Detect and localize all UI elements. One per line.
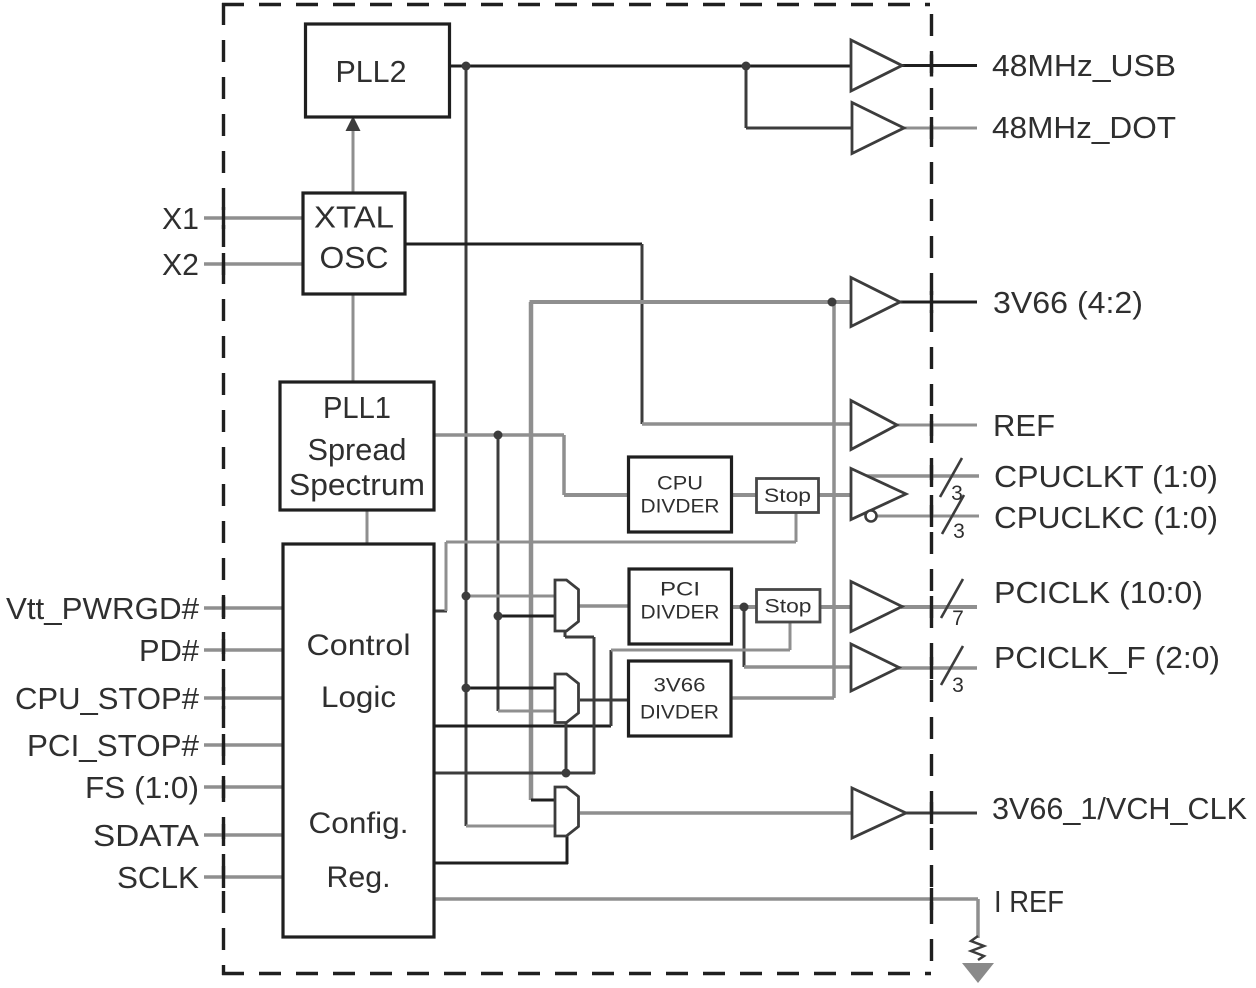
svg-text:SCLK: SCLK	[117, 860, 199, 895]
svg-text:DIVDER: DIVDER	[640, 703, 719, 724]
svg-text:3: 3	[952, 674, 964, 697]
svg-text:I REF: I REF	[994, 884, 1064, 919]
svg-text:48MHz_USB: 48MHz_USB	[992, 48, 1176, 83]
svg-text:REF: REF	[993, 408, 1055, 443]
svg-text:CPUCLKT (1:0): CPUCLKT (1:0)	[994, 459, 1218, 494]
svg-text:PCICLK_F (2:0): PCICLK_F (2:0)	[994, 640, 1220, 675]
svg-text:Stop: Stop	[765, 597, 812, 618]
svg-text:48MHz_DOT: 48MHz_DOT	[992, 110, 1176, 145]
svg-text:PLL1: PLL1	[323, 390, 391, 425]
svg-text:CPUCLKC (1:0): CPUCLKC (1:0)	[994, 500, 1218, 535]
svg-text:PCI_STOP#: PCI_STOP#	[27, 728, 200, 763]
svg-text:7: 7	[952, 607, 964, 630]
svg-text:3V66_1/VCH_CLK: 3V66_1/VCH_CLK	[992, 791, 1247, 826]
svg-text:PLL2: PLL2	[336, 54, 407, 89]
svg-text:Reg.: Reg.	[327, 861, 391, 894]
svg-text:DIVDER: DIVDER	[641, 497, 720, 518]
svg-text:CPU: CPU	[657, 474, 703, 495]
svg-text:Spectrum: Spectrum	[289, 467, 425, 502]
svg-text:FS (1:0): FS (1:0)	[85, 770, 199, 805]
svg-text:PCICLK (10:0): PCICLK (10:0)	[994, 575, 1203, 610]
svg-text:Config.: Config.	[309, 807, 409, 840]
svg-text:Vtt_PWRGD#: Vtt_PWRGD#	[6, 591, 200, 626]
svg-text:3: 3	[953, 520, 965, 543]
svg-text:Stop: Stop	[764, 486, 811, 507]
svg-text:PD#: PD#	[139, 633, 200, 668]
svg-text:DIVDER: DIVDER	[641, 603, 720, 624]
svg-text:Control: Control	[307, 629, 411, 662]
svg-text:OSC: OSC	[320, 240, 389, 275]
svg-text:X2: X2	[162, 247, 199, 282]
svg-text:3V66 (4:2): 3V66 (4:2)	[993, 285, 1143, 320]
svg-text:SDATA: SDATA	[93, 818, 199, 853]
svg-text:3V66: 3V66	[654, 676, 706, 697]
svg-text:PCI: PCI	[660, 580, 700, 601]
svg-text:Spread: Spread	[308, 432, 407, 467]
svg-text:X1: X1	[162, 201, 199, 236]
svg-text:XTAL: XTAL	[314, 200, 394, 235]
svg-text:CPU_STOP#: CPU_STOP#	[15, 681, 200, 716]
svg-text:Logic: Logic	[321, 681, 396, 714]
